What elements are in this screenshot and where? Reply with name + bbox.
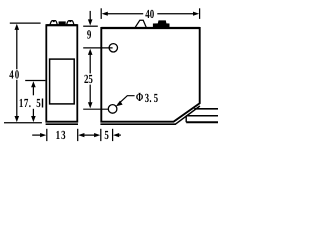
left view base line xyxy=(46,123,78,125)
dim 17.5: bottom arrow xyxy=(31,116,36,122)
right screw bump xyxy=(67,21,74,25)
right view top edge overdraw xyxy=(101,27,199,29)
right view outline with chamfer xyxy=(101,28,199,122)
svg-text:Φ: Φ xyxy=(136,90,143,104)
dim 17.5: lower stem xyxy=(32,109,34,117)
cable bottom line xyxy=(186,121,218,123)
svg-text:17.: 17. xyxy=(19,96,31,110)
dim 5: right arrow + tail xyxy=(113,133,119,137)
left view lens window xyxy=(50,59,75,104)
svg-text:13: 13 xyxy=(56,128,67,142)
leader arrowhead xyxy=(116,101,123,107)
cable step vertical xyxy=(185,116,187,122)
small bar right of 17.5 xyxy=(42,99,44,108)
dim 40 left: upper stem xyxy=(16,28,18,70)
top black block xyxy=(59,21,66,25)
cable mid line xyxy=(186,115,218,117)
dim 9: top stem + arrow xyxy=(89,11,91,20)
dim 40 top: right arrow xyxy=(193,12,199,16)
svg-text:5: 5 xyxy=(36,96,40,110)
mounting hole extension line xyxy=(83,108,108,110)
cable top line xyxy=(194,108,218,110)
dim 17.5: upper stem xyxy=(32,85,34,95)
left view outer body xyxy=(46,25,77,122)
dim 40 left: top extension xyxy=(10,22,41,24)
svg-text:40: 40 xyxy=(9,68,20,82)
dim 40 top: left arrow xyxy=(102,12,108,16)
dim 17.5: extension line xyxy=(25,80,45,82)
bottom-left extension line xyxy=(4,122,42,124)
right view base line xyxy=(100,123,175,125)
svg-text:9: 9 xyxy=(87,28,91,42)
dim 40 left: lower stem xyxy=(16,80,18,116)
mounting hole circle xyxy=(108,105,117,114)
dim 13: left tail + arrow xyxy=(32,134,41,136)
top trapezoid bump xyxy=(135,20,146,27)
dim 9: top extension line xyxy=(83,25,98,27)
dim 40 left: bottom arrow xyxy=(15,116,20,122)
dim 17.5: top arrow xyxy=(31,81,36,87)
svg-text:25: 25 xyxy=(84,72,93,86)
optical axis extension line xyxy=(83,47,112,49)
left view top edge overdraw xyxy=(46,24,77,26)
left screw bump xyxy=(50,21,57,25)
bottom dim ticks xyxy=(46,129,48,141)
svg-text:5: 5 xyxy=(154,91,158,105)
optical axis circle xyxy=(109,44,117,52)
svg-text:3.: 3. xyxy=(145,91,152,105)
dim 40 top: lines xyxy=(105,13,144,15)
dim 13/5 middle line with outward arrows xyxy=(81,134,99,136)
dim 40 left: top arrow xyxy=(15,24,20,30)
inner chamfer line xyxy=(175,106,200,124)
leader line xyxy=(118,96,135,105)
dim 25: top arrow + stem xyxy=(88,49,93,55)
dim 40 top: ticks xyxy=(100,8,102,19)
dim 25: bottom stem + arrow xyxy=(89,85,91,105)
top black mound xyxy=(153,20,170,27)
svg-text:40: 40 xyxy=(145,7,154,21)
svg-text:5: 5 xyxy=(104,128,108,142)
